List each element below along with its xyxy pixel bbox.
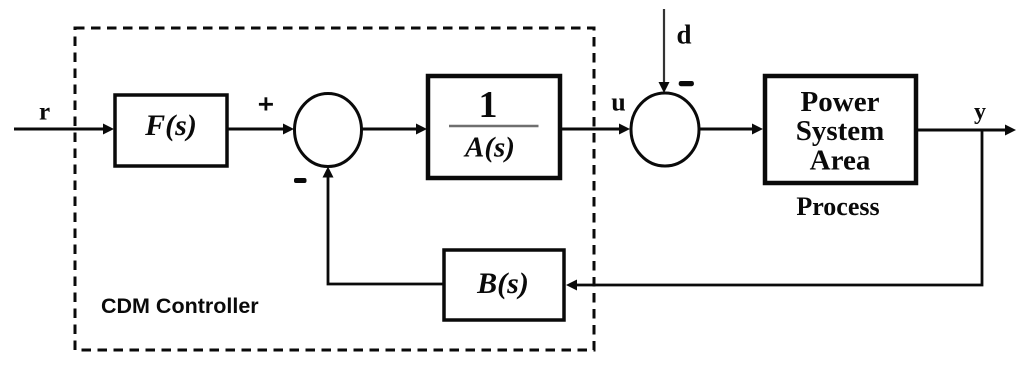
wire F(s) to summing junction 1: [227, 124, 294, 135]
wire output y arrow: [916, 125, 1016, 136]
svg-text:y: y: [974, 99, 986, 125]
disturbance d input arrow: [659, 9, 670, 93]
svg-text:System: System: [796, 115, 885, 147]
block B(s): [444, 250, 564, 320]
svg-text:Area: Area: [810, 145, 871, 177]
block F(s): [115, 95, 227, 166]
wire B(s) left then up to summing junction 1: [323, 167, 445, 285]
plus sign at summing junction 1: [259, 97, 273, 110]
svg-text:F(s): F(s): [144, 109, 197, 142]
node r label: [39, 99, 50, 126]
svg-text:r: r: [39, 99, 50, 126]
wire r input arrow into F(s): [14, 124, 114, 135]
wire summing junction 2 to Power System Area block: [700, 124, 763, 135]
svg-text:d: d: [676, 20, 691, 50]
wire feedback from output y down and left into B(s): [566, 130, 982, 291]
svg-text:A(s): A(s): [463, 132, 515, 164]
dashed CDM controller boundary box: [75, 28, 594, 350]
svg-text:Power: Power: [801, 86, 880, 118]
node u label: [611, 88, 625, 117]
wire summing junction 1 to 1/A(s): [362, 124, 427, 135]
minus sign at summing junction 1: [294, 178, 307, 183]
svg-text:Process: Process: [796, 192, 879, 221]
block Power System Area: [765, 76, 916, 183]
block 1/A(s): [428, 76, 560, 178]
svg-text:CDM Controller: CDM Controller: [101, 294, 259, 318]
minus sign at summing junction 2: [679, 81, 694, 86]
svg-text:1: 1: [479, 84, 498, 126]
summing junction 1: [295, 94, 362, 167]
svg-text:B(s): B(s): [476, 267, 529, 300]
wire 1/A(s) to summing junction 2: [560, 124, 630, 135]
label Process: [796, 192, 879, 221]
label CDM Controller: [101, 294, 259, 318]
node y label: [974, 99, 986, 125]
svg-text:u: u: [611, 88, 625, 117]
summing junction 2: [631, 93, 699, 166]
node d label: [676, 20, 691, 50]
